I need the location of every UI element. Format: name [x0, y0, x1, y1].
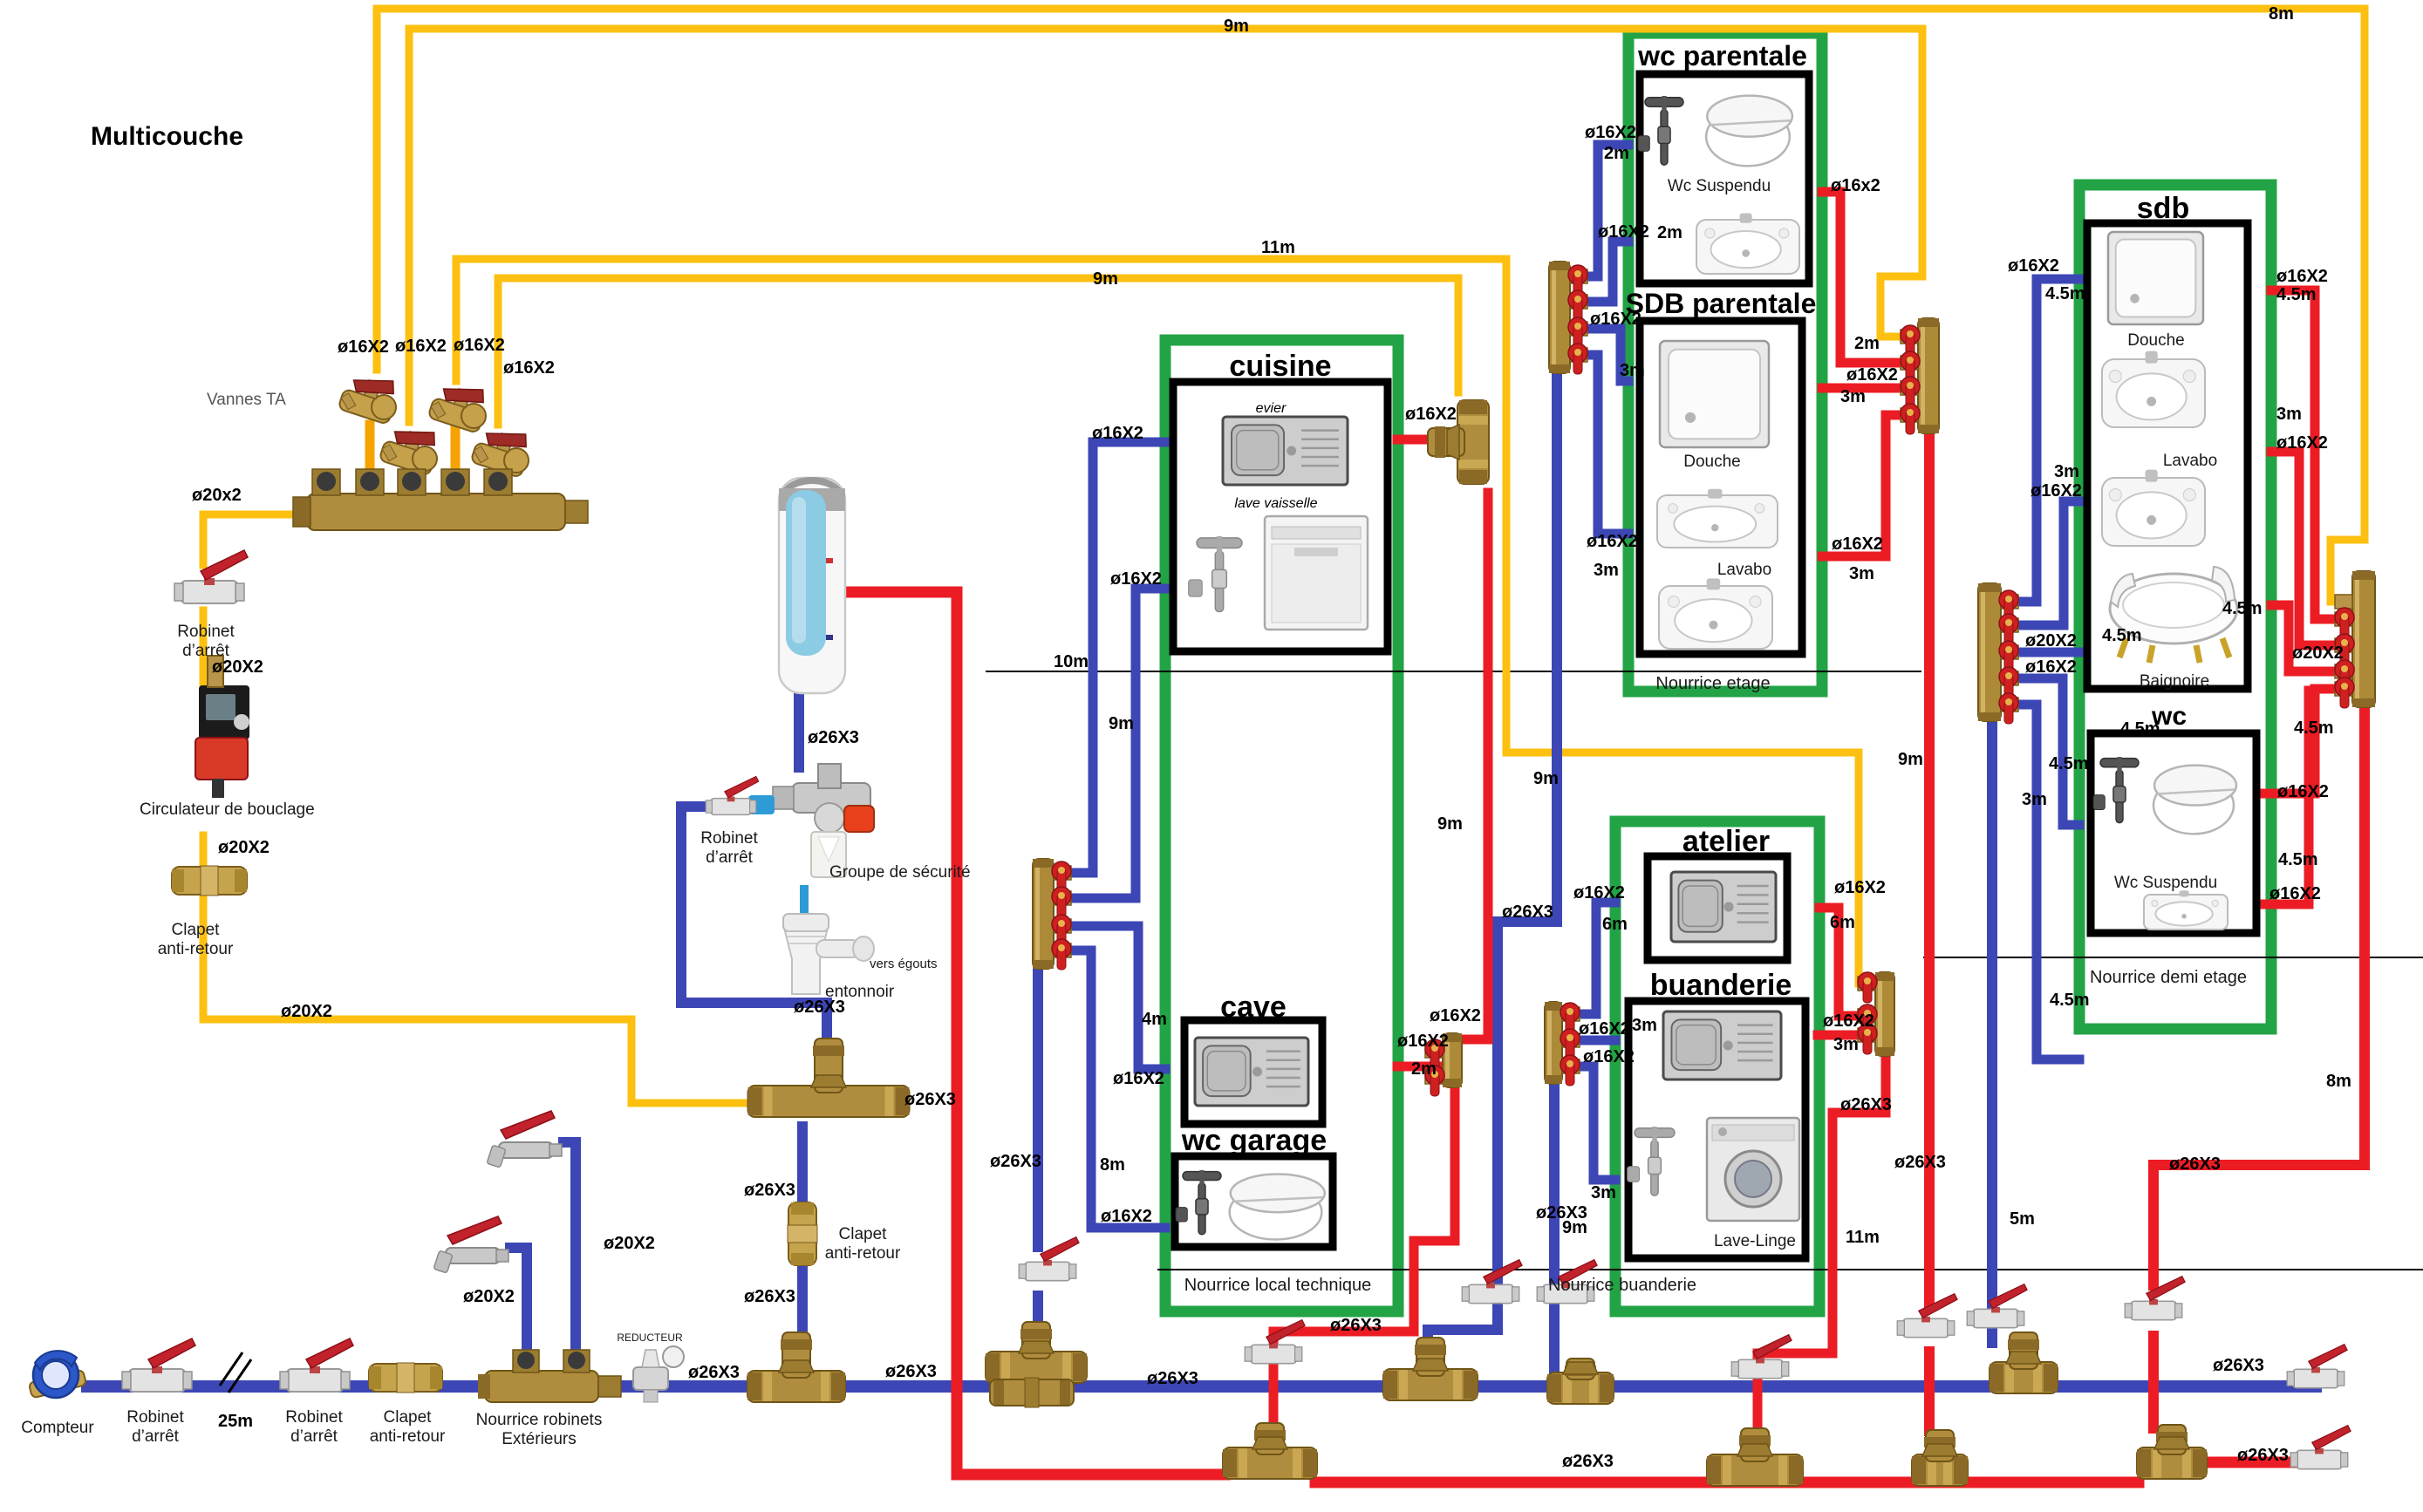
valve on etage riser [1462, 1260, 1522, 1304]
pipe red sdb parentale douche 3m [1822, 384, 1916, 393]
fixture baignoire [2110, 567, 2237, 663]
fixture evier cuisine [1223, 417, 1348, 485]
svg-text:ø16X2: ø16X2 [2276, 433, 2328, 453]
svg-text:ø16X2: ø16X2 [1585, 123, 1636, 142]
outdoor tap 2 [487, 1111, 562, 1168]
small cyan connectors [1683, 144, 1708, 151]
svg-text:4.5m: 4.5m [2045, 284, 2085, 303]
svg-text:ø16X2: ø16X2 [503, 358, 555, 378]
pipe red hot main right stub to end valve [2207, 1457, 2303, 1468]
pipe blue cold main bottom [87, 1380, 2316, 1393]
tee red cuisine joins main A [1223, 1423, 1317, 1479]
svg-text:wc garage: wc garage [1181, 1124, 1327, 1157]
pipe blue demi etage riser 5m [1987, 723, 1997, 1307]
svg-text:ø26X3: ø26X3 [688, 1363, 740, 1382]
svg-text:ø26X3: ø26X3 [990, 1152, 1041, 1171]
room box wc garage [1175, 1156, 1333, 1247]
fixture robinet buanderie [1628, 1127, 1675, 1195]
svg-text:ø20X2: ø20X2 [2292, 644, 2344, 663]
svg-text:3m: 3m [2022, 790, 2047, 809]
pipe blue tee to clapet vertical [797, 1127, 808, 1205]
svg-text:ø26X3: ø26X3 [1840, 1095, 1892, 1114]
svg-text:ø26X3: ø26X3 [904, 1090, 956, 1109]
svg-text:ø16X2: ø16X2 [1110, 569, 1162, 589]
room group box wc/sdb parentale [1628, 33, 1822, 691]
fixture lavabo wc demi [2144, 890, 2228, 930]
tee red etage joins main C [1912, 1430, 1968, 1486]
vanne TA 2 [379, 423, 437, 476]
svg-text:ø20X2: ø20X2 [218, 838, 270, 857]
water heater [779, 477, 845, 693]
vanne TA 1 [338, 371, 396, 425]
svg-text:cuisine: cuisine [1229, 350, 1331, 383]
svg-text:4.5m: 4.5m [2050, 991, 2090, 1010]
svg-text:Robinet: Robinet [126, 1408, 184, 1427]
svg-text:3m: 3m [1594, 561, 1619, 580]
svg-text:ø26X3: ø26X3 [808, 728, 859, 747]
svg-text:4.5m: 4.5m [2049, 754, 2089, 773]
svg-text:Nourrice local technique: Nourrice local technique [1184, 1276, 1372, 1295]
svg-text:2m: 2m [1604, 144, 1629, 163]
valve on cuisine red drop [1245, 1320, 1305, 1364]
valve on demi riser [1967, 1284, 2027, 1328]
svg-text:3m: 3m [2276, 405, 2302, 424]
pipe blue buanderie manifold port1 atelier 6m [1564, 902, 1615, 1014]
pipe red cuisine tee down 9m to cave manifold [1462, 493, 1488, 1039]
svg-text:Nourrice robinets: Nourrice robinets [476, 1411, 603, 1429]
tee blue etage joins main [1383, 1338, 1478, 1400]
svg-text:Compteur: Compteur [21, 1419, 94, 1437]
svg-text:ø26X3: ø26X3 [1147, 1369, 1198, 1388]
svg-text:ø16X2: ø16X2 [1397, 1032, 1449, 1051]
svg-text:Nourrice etage: Nourrice etage [1655, 674, 1770, 693]
pipe yellow return 11m loop to buanderie manifold [456, 259, 1879, 984]
svg-text:wc parentale: wc parentale [1637, 40, 1807, 72]
pipe blue groupe securite robinet branch [681, 807, 827, 1057]
clapet anti-retour vertical [788, 1202, 817, 1265]
svg-text:Douche: Douche [2127, 331, 2185, 350]
nourrice robinets exterieurs [478, 1350, 621, 1402]
pipe blue local manifold port3 cave 4m [1056, 926, 1165, 1069]
svg-text:entonnoir: entonnoir [825, 983, 895, 1001]
clapet anti-retour left [172, 866, 247, 896]
svg-text:ø20x2: ø20x2 [192, 486, 242, 505]
svg-text:2m: 2m [1854, 334, 1880, 353]
svg-text:ø16X2: ø16X2 [1573, 883, 1625, 902]
svg-text:11m: 11m [1846, 1228, 1880, 1247]
pipe red demi hot wc suspendu stub [2259, 689, 2351, 793]
pipe red demi hot baignoire 4.5m [2271, 605, 2351, 671]
svg-text:ø26X3: ø26X3 [1330, 1316, 1382, 1335]
pipe red buanderie manifold down 11m [1758, 1057, 1886, 1356]
fixture evier cave [1195, 1038, 1308, 1106]
room box sdb parentale [1640, 321, 1802, 654]
fixture lavabo1 sdb [2102, 351, 2205, 427]
svg-text:ø16X2: ø16X2 [2269, 884, 2321, 903]
svg-text:vers égouts: vers égouts [870, 957, 938, 971]
svg-text:ø16X2: ø16X2 [1834, 878, 1886, 897]
room box cave [1184, 1020, 1322, 1124]
floor line nourrice etage [986, 671, 1921, 672]
pipe blue outdoor tap 2 o20x2 [563, 1142, 576, 1360]
svg-text:ø16X2: ø16X2 [454, 336, 505, 355]
tee red demi joins main D [2137, 1425, 2207, 1479]
svg-text:3m: 3m [1840, 387, 1866, 406]
svg-text:9m: 9m [1562, 1218, 1587, 1237]
pipe blue local manifold port1 evier [1056, 442, 1165, 873]
room box wc demi [2091, 733, 2256, 933]
valve on local technique riser [1019, 1237, 1079, 1281]
fixture wc suspendu demi [2153, 766, 2236, 834]
svg-text:ø26X3: ø26X3 [2213, 1356, 2264, 1375]
manifold etage cold [1549, 262, 1587, 374]
svg-text:Robinet: Robinet [700, 829, 758, 848]
room group box atelier/buanderie [1615, 821, 1819, 1311]
room box cuisine [1173, 382, 1388, 651]
svg-text:9m: 9m [1898, 750, 1923, 769]
fixture lavabo2 sdb [2102, 470, 2205, 546]
valve on demi red drop [2125, 1277, 2185, 1320]
svg-text:anti-retour: anti-retour [370, 1427, 446, 1446]
valve end of red main [2290, 1426, 2351, 1469]
pipe blue demi manifold port5 lavabo wc 4.5m [2010, 705, 2079, 1059]
svg-text:ø26X3: ø26X3 [744, 1287, 795, 1306]
svg-text:Lave-Linge: Lave-Linge [1714, 1232, 1796, 1250]
manifold buanderie hot [1858, 972, 1894, 1056]
circulateur de bouclage [195, 656, 249, 798]
svg-text:SDB parentale: SDB parentale [1626, 288, 1817, 319]
svg-text:Nourrice buanderie: Nourrice buanderie [1548, 1276, 1696, 1295]
pipe yellow return 9m second loop to etage manifold [409, 29, 1922, 422]
svg-text:ø16X2: ø16X2 [1823, 1011, 1874, 1031]
fixture wc suspendu garage [1230, 1175, 1325, 1240]
coupler blue main [990, 1378, 1074, 1407]
pipe yellow return 9m loop to cuisine tee [498, 278, 1458, 425]
valve on buanderie red drop [1731, 1335, 1792, 1379]
svg-text:d’arrêt: d’arrêt [132, 1427, 180, 1446]
valve end of blue main [2287, 1345, 2347, 1388]
svg-text:ø16X2: ø16X2 [2276, 267, 2328, 286]
svg-text:5m: 5m [2010, 1209, 2035, 1229]
tee blue after reducteur [747, 1332, 845, 1402]
svg-text:ø26X3: ø26X3 [2169, 1154, 2221, 1174]
svg-text:ø26X3: ø26X3 [2237, 1446, 2289, 1465]
svg-text:6m: 6m [1830, 913, 1855, 932]
svg-text:8m: 8m [1100, 1155, 1125, 1175]
pipe yellow manifold feed o20x2 down through pump chain [203, 514, 297, 565]
manifold etage hot [1901, 318, 1939, 434]
svg-text:ø16X2: ø16X2 [1587, 532, 1638, 551]
svg-text:Extérieurs: Extérieurs [502, 1430, 577, 1448]
fixture lavabo2 sdb parentale [1659, 578, 1772, 649]
svg-text:ø16X2: ø16X2 [1579, 1019, 1630, 1039]
pipe break 25m marks [220, 1352, 251, 1393]
svg-text:ø20X2: ø20X2 [212, 657, 263, 677]
svg-text:atelier: atelier [1682, 825, 1770, 858]
svg-text:11m: 11m [1261, 238, 1295, 257]
svg-text:Vannes TA: Vannes TA [207, 391, 286, 409]
svg-text:ø20X2: ø20X2 [2025, 631, 2077, 650]
svg-text:ø16x2: ø16x2 [1831, 176, 1880, 195]
svg-text:Nourrice demi etage: Nourrice demi etage [2090, 968, 2247, 987]
svg-text:d’arrêt: d’arrêt [182, 642, 230, 660]
svg-text:d’arrêt: d’arrêt [706, 848, 754, 867]
pipe red demi hot manifold down 8m [2153, 708, 2365, 1285]
pipe blue etage manifold port4 lavabo 3m [1570, 355, 1628, 534]
svg-text:Wc Suspendu: Wc Suspendu [2114, 874, 2217, 892]
svg-text:4.5m: 4.5m [2102, 626, 2142, 645]
svg-text:3m: 3m [1833, 1035, 1859, 1054]
room box atelier [1648, 856, 1787, 960]
pipe red demi hot lavabo 3m [2271, 452, 2351, 645]
tee yellow big return [748, 1039, 910, 1117]
svg-text:4m: 4m [1142, 1010, 1167, 1029]
svg-text:Douche: Douche [1683, 453, 1741, 471]
pipe blue local technique riser [1033, 966, 1043, 1247]
svg-text:Clapet: Clapet [384, 1408, 433, 1427]
vanne TA 3 [427, 380, 486, 433]
pipe red cave sink stub 2m [1397, 1062, 1444, 1072]
svg-text:4.5m: 4.5m [2294, 719, 2334, 738]
fixture evier atelier [1671, 872, 1776, 942]
valve robinet arret 2 main [280, 1338, 353, 1392]
tee cuisine hot yellow-red [1428, 400, 1489, 484]
pipe red buanderie sink 3m [1818, 1031, 1874, 1040]
manifold cave hot [1425, 1033, 1462, 1096]
room box sdb [2087, 223, 2248, 689]
svg-text:3m: 3m [1591, 1183, 1616, 1202]
svg-text:Robinet: Robinet [285, 1408, 343, 1427]
tee blue local technique [986, 1322, 1087, 1383]
pipe red demi hot wc lavabo 4.5m [2259, 691, 2309, 904]
pipe blue demi manifold port3 baignoire o20x2 [2010, 648, 2079, 657]
pipe red etage hot manifold down 9m o26x3 [1924, 433, 1935, 1304]
fixture robinet lave-vaisselle [1189, 536, 1242, 611]
svg-text:2m: 2m [1411, 1059, 1437, 1079]
fixture lavabo wc parentale [1696, 214, 1799, 274]
pipe blue etage manifold port2 lavabo 2m [1570, 242, 1628, 302]
svg-text:ø26X3: ø26X3 [885, 1362, 937, 1381]
svg-text:ø26X3: ø26X3 [1894, 1153, 1946, 1172]
svg-text:cave: cave [1220, 991, 1287, 1024]
svg-text:ø20X2: ø20X2 [463, 1287, 515, 1306]
pipe blue etage riser 10m [1498, 371, 1557, 1280]
svg-text:8m: 8m [2269, 4, 2294, 24]
valve on buanderie riser [1537, 1260, 1597, 1304]
fixture lave-vaisselle [1265, 516, 1368, 630]
svg-text:3m: 3m [1632, 1016, 1657, 1035]
svg-text:2m: 2m [1657, 223, 1682, 242]
svg-text:4.5m: 4.5m [2222, 599, 2263, 618]
svg-text:evier: evier [1256, 401, 1287, 416]
svg-text:ø20X2: ø20X2 [281, 1002, 332, 1021]
svg-text:Wc Suspendu: Wc Suspendu [1668, 177, 1771, 195]
outdoor tap 1 [433, 1216, 508, 1273]
svg-text:8m: 8m [2326, 1072, 2351, 1091]
manifold multicouche 5 ports [293, 469, 588, 530]
room box wc parentale [1640, 74, 1809, 283]
svg-text:3m: 3m [1620, 361, 1645, 380]
manifold demi hot [2335, 571, 2375, 708]
svg-text:4.5m: 4.5m [2276, 285, 2317, 304]
fixture evier buanderie [1663, 1011, 1781, 1080]
svg-text:REDUCTEUR: REDUCTEUR [617, 1332, 683, 1344]
fixture douche sdb [2108, 232, 2203, 324]
svg-text:Lavabo: Lavabo [2163, 452, 2217, 470]
fixture lave-linge [1707, 1118, 1799, 1221]
svg-text:ø16X2: ø16X2 [1113, 1069, 1164, 1088]
svg-text:ø16X2: ø16X2 [338, 337, 389, 357]
pipe blue local manifold port4 wc garage 8m [1056, 950, 1165, 1228]
pipe blue etage manifold port1 wc parentale 2m [1570, 145, 1628, 276]
svg-text:4.5m: 4.5m [2278, 850, 2318, 869]
pipe blue buanderie manifold port3 lave-linge 3m [1564, 1066, 1615, 1180]
pipe blue buanderie riser 9m [1549, 1083, 1560, 1280]
manifold demi cold [1978, 583, 2018, 724]
fixture robinet wc demi [2093, 757, 2139, 823]
svg-text:Clapet: Clapet [839, 1225, 888, 1243]
svg-text:ø16X2: ø16X2 [1405, 405, 1457, 424]
svg-text:ø16X2: ø16X2 [2008, 256, 2059, 276]
svg-text:sdb: sdb [2137, 192, 2189, 225]
pipe blue demi manifold port2 lavabo 3m [2010, 501, 2079, 625]
manifold local technique cold [1033, 859, 1071, 970]
svg-text:anti-retour: anti-retour [158, 940, 234, 958]
svg-text:ø16X2: ø16X2 [1092, 424, 1143, 443]
pipe blue local manifold port2 lave-vaisselle 9m [1056, 589, 1165, 898]
valve robinet arret 1 main [122, 1338, 195, 1392]
pipe blue heater inlet stub [794, 695, 804, 767]
svg-text:9m: 9m [1437, 814, 1463, 834]
svg-text:10m: 10m [1054, 652, 1089, 671]
pipe blue buanderie manifold port2 3m [1564, 1036, 1615, 1045]
tee red buanderie joins main B [1707, 1428, 1803, 1486]
pipe red wc parentale lavabo 2m [1822, 192, 1916, 363]
room box buanderie [1628, 1001, 1805, 1258]
pipe red hot main from heater o26x3 [845, 592, 1225, 1475]
svg-text:ø16X2: ø16X2 [2031, 481, 2082, 501]
tee blue buanderie joins main [1547, 1359, 1614, 1404]
svg-text:3m: 3m [2054, 462, 2079, 481]
room group box cuisine/cave/wc-garage [1165, 340, 1398, 1311]
vanne TA 4 [470, 425, 529, 478]
clapet anti-retour main [369, 1363, 442, 1393]
pipe yellow return 8m top loop [377, 9, 2365, 602]
pipe red cuisine evier stub [1397, 435, 1439, 445]
svg-text:ø20X2: ø20X2 [604, 1234, 655, 1253]
svg-text:ø16X2: ø16X2 [1598, 222, 1649, 242]
fixture lavabo1 sdb parentale [1657, 489, 1778, 548]
svg-text:ø26X3: ø26X3 [1502, 902, 1553, 922]
manifold buanderie cold [1545, 1002, 1580, 1086]
svg-text:9m: 9m [1533, 769, 1559, 788]
pipe blue demi manifold port4 wc suspendu [2010, 678, 2079, 825]
pipe blue etage manifold port3 douche 3m [1570, 329, 1628, 381]
valve robinet arret groupe [706, 776, 758, 814]
svg-text:9m: 9m [1109, 714, 1134, 733]
fixture robinet wc garage [1176, 1170, 1221, 1235]
fixture wc suspendu parentale [1706, 96, 1792, 167]
fixture douche sdb parentale [1660, 341, 1769, 447]
svg-text:3m: 3m [1849, 564, 1874, 583]
svg-text:9m: 9m [1224, 17, 1249, 36]
svg-text:ø16X2: ø16X2 [1846, 365, 1898, 385]
svg-text:ø26X3: ø26X3 [744, 1181, 795, 1200]
svg-text:Multicouche: Multicouche [91, 122, 243, 151]
svg-text:25m: 25m [218, 1412, 253, 1431]
room group box sdb/wc demi etage [2079, 185, 2271, 1029]
svg-text:Baignoire: Baignoire [2140, 672, 2209, 691]
reducteur pressure reducer [633, 1346, 684, 1402]
pipe blue demi manifold port1 douche 4.5m [2010, 279, 2079, 602]
pipe red demi hot douche 4.5m [2271, 290, 2351, 619]
svg-text:Lavabo: Lavabo [1717, 561, 1771, 579]
svg-text:d’arrêt: d’arrêt [290, 1427, 338, 1446]
svg-text:buanderie: buanderie [1650, 969, 1792, 1002]
svg-text:ø16X2: ø16X2 [2277, 782, 2329, 801]
groupe de securite [748, 764, 874, 877]
svg-text:ø16X2: ø16X2 [1430, 1006, 1481, 1025]
svg-text:wc: wc [2151, 702, 2187, 731]
tee blue demi joins main [1990, 1332, 2058, 1393]
svg-text:Groupe de sécurité: Groupe de sécurité [829, 863, 971, 882]
pipe blue outdoor tap 1 [510, 1248, 527, 1360]
robinet arret yellow line [174, 550, 248, 603]
pipe yellow TA stubs [365, 425, 375, 494]
svg-text:ø16X2: ø16X2 [1583, 1047, 1635, 1066]
pipe red buanderie atelier 6m [1819, 908, 1874, 1016]
pipe red sdb parentale lavabo 3m [1822, 415, 1916, 556]
svg-text:ø16X2: ø16X2 [395, 337, 447, 356]
pipe red hot main middle [1315, 1477, 2139, 1488]
svg-text:9m: 9m [1093, 269, 1118, 289]
compteur water meter [29, 1351, 86, 1398]
floor line nourrice demi etage [1923, 957, 2423, 958]
entonnoir funnel [783, 914, 874, 994]
valve on etage red drop [1897, 1294, 1957, 1338]
svg-text:Robinet: Robinet [177, 623, 235, 641]
svg-text:lave vaisselle: lave vaisselle [1234, 496, 1317, 511]
svg-text:ø16X2: ø16X2 [2025, 657, 2077, 677]
svg-text:Circulateur de bouclage: Circulateur de bouclage [140, 800, 315, 819]
fixture robinet wc parentale [1638, 96, 1683, 165]
pipe red cave manifold down to main [1273, 1087, 1455, 1341]
svg-text:ø26X3: ø26X3 [1562, 1452, 1614, 1471]
svg-text:ø16X2: ø16X2 [1101, 1207, 1152, 1226]
svg-text:ø16X2: ø16X2 [1832, 535, 1883, 554]
svg-text:anti-retour: anti-retour [825, 1244, 901, 1263]
svg-text:Clapet: Clapet [172, 921, 221, 939]
floor line nourrice local technique / buanderie [1157, 1269, 2423, 1270]
svg-text:6m: 6m [1602, 915, 1628, 934]
